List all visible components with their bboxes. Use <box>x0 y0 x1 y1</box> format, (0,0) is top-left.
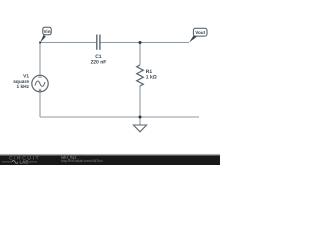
svg-text:1 kΩ: 1 kΩ <box>146 75 157 81</box>
capacitor C1 <box>97 35 100 50</box>
svg-text:Vin: Vin <box>43 29 50 34</box>
svg-text:http://circuitlab.com/c5k7hw: http://circuitlab.com/c5k7hw <box>61 159 103 163</box>
label C1 value <box>90 54 106 66</box>
footer logo CircuitLab <box>2 156 40 165</box>
wire from top node A down to R1 top <box>139 43 141 66</box>
wire top-right horizontal from C1 right plate to Vout anchor <box>100 42 189 44</box>
svg-text:square: square <box>13 80 29 85</box>
footer bar <box>0 154 220 165</box>
svg-text:220 nF: 220 nF <box>90 60 106 66</box>
wire left vertical from V1 bottom to bottom rail <box>39 92 41 117</box>
svg-text:Vout: Vout <box>195 30 205 35</box>
wire left vertical from corner to V1 top <box>39 43 41 76</box>
wire ground stub <box>139 117 141 125</box>
wire bottom rail horizontal <box>40 116 199 118</box>
wire from R1 bottom to bottom rail <box>139 86 141 117</box>
wire top-left horizontal from Vin corner to C1 left plate <box>40 42 96 44</box>
source V1 <box>32 75 48 91</box>
label V1 value <box>13 73 29 90</box>
ground <box>133 125 146 132</box>
node A junction dot top <box>139 41 142 44</box>
node B junction dot bottom <box>139 116 142 119</box>
node Vin flag <box>39 27 51 43</box>
resistor R1 <box>137 65 144 86</box>
svg-text:1 kHz: 1 kHz <box>16 84 29 90</box>
svg-text:LAB: LAB <box>20 160 29 165</box>
label R1 value <box>146 69 157 81</box>
svg-text:V1: V1 <box>23 73 29 79</box>
node Vout flag <box>189 28 207 42</box>
footer text <box>61 155 103 163</box>
